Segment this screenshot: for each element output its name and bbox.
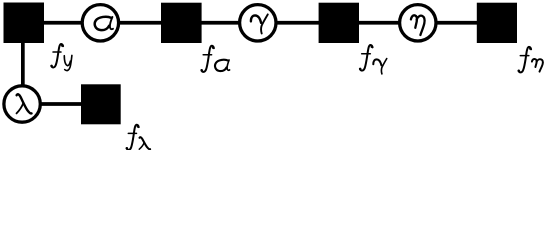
variable node circle eta (400, 5, 436, 41)
factor node square f_alpha (161, 3, 202, 43)
factor node square f_y (4, 3, 45, 44)
wire alpha to f_alpha (118, 21, 162, 25)
wire gamma to f_gamma (275, 21, 319, 25)
label f_lambda (126, 125, 150, 150)
label f_alpha (200, 46, 229, 72)
wire lambda to f_lambda (39, 102, 82, 106)
wire f_y to alpha (43, 21, 83, 25)
factor node square f_eta (477, 3, 517, 43)
wire f_alpha to gamma (201, 21, 241, 25)
letter gamma (251, 14, 268, 33)
factor node square f_lambda (81, 84, 121, 124)
variable node circle gamma (240, 5, 276, 41)
label f_eta (518, 47, 543, 72)
letter alpha (95, 17, 113, 30)
variable node circle alpha (82, 5, 118, 41)
label f_y (50, 44, 72, 71)
wire eta to f_eta (435, 21, 477, 25)
label f_gamma (359, 45, 387, 74)
letter eta (411, 15, 425, 35)
letter lambda (17, 94, 32, 113)
wire f_gamma to eta (358, 21, 401, 25)
wire f_y down to lambda (21, 42, 25, 87)
factor node square f_gamma (319, 3, 359, 43)
variable node circle lambda (4, 86, 40, 122)
